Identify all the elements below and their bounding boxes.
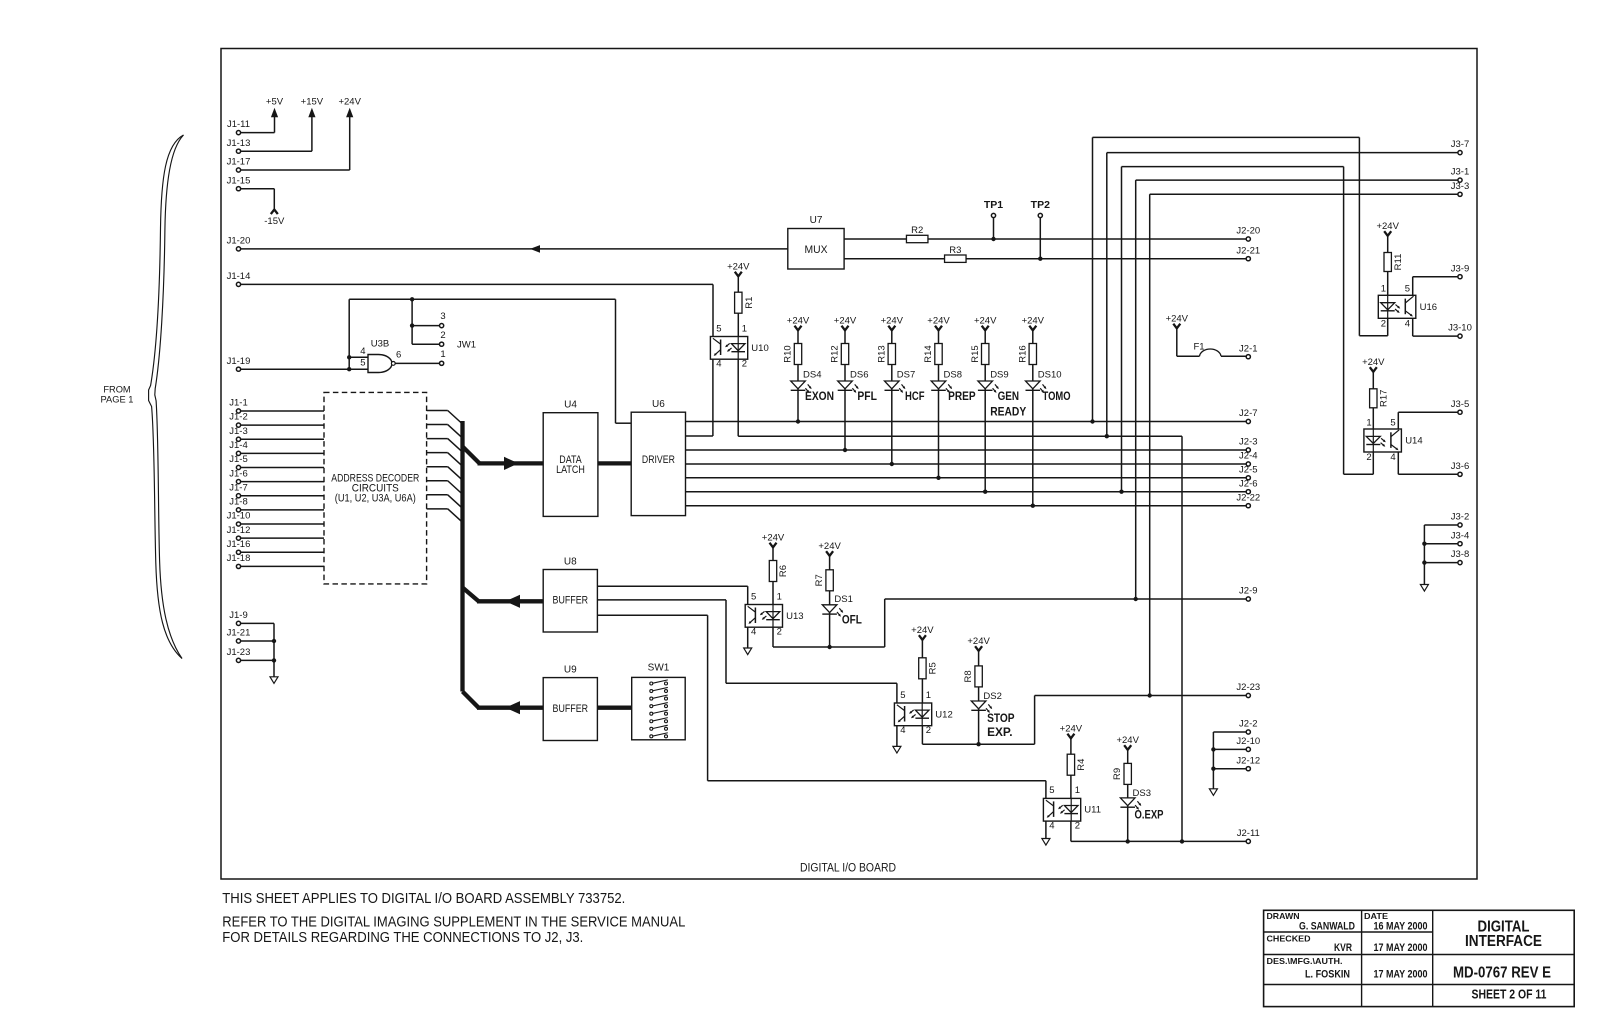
svg-text:R17: R17 — [1379, 390, 1390, 407]
svg-text:DS10: DS10 — [1038, 370, 1062, 381]
svg-text:J2-9: J2-9 — [1239, 586, 1257, 597]
svg-text:DRIVER: DRIVER — [642, 454, 675, 466]
svg-text:F1: F1 — [1194, 342, 1205, 353]
svg-text:+24V: +24V — [762, 533, 785, 544]
svg-text:J1-18: J1-18 — [227, 553, 251, 564]
svg-text:R14: R14 — [923, 345, 934, 362]
svg-text:EXP.: EXP. — [987, 727, 1013, 739]
svg-text:DS8: DS8 — [944, 370, 962, 381]
svg-text:J2-5: J2-5 — [1239, 464, 1257, 475]
svg-text:J3-10: J3-10 — [1448, 323, 1472, 334]
svg-text:R1: R1 — [744, 297, 755, 309]
svg-text:U16: U16 — [1420, 302, 1437, 313]
svg-text:DS7: DS7 — [897, 370, 915, 381]
svg-text:PREP: PREP — [948, 391, 976, 403]
svg-text:2: 2 — [1366, 452, 1371, 463]
svg-text:J1-1: J1-1 — [229, 398, 247, 409]
svg-text:J2-12: J2-12 — [1236, 755, 1260, 766]
svg-text:J1-6: J1-6 — [229, 468, 247, 479]
svg-text:3: 3 — [440, 311, 445, 322]
svg-text:1: 1 — [777, 591, 782, 602]
svg-text:1: 1 — [926, 690, 931, 701]
svg-text:BUFFER: BUFFER — [553, 703, 589, 715]
svg-text:J3-5: J3-5 — [1451, 399, 1469, 410]
svg-text:R3: R3 — [949, 245, 961, 256]
svg-text:J2-1: J2-1 — [1239, 343, 1257, 354]
svg-text:R13: R13 — [876, 345, 887, 362]
svg-text:R11: R11 — [1393, 254, 1404, 271]
svg-text:J2-11: J2-11 — [1237, 828, 1260, 839]
svg-text:+24V: +24V — [834, 316, 857, 327]
svg-text:4: 4 — [360, 346, 365, 357]
svg-text:(U1, U2, U3A, U6A): (U1, U2, U3A, U6A) — [335, 493, 416, 505]
svg-text:+24V: +24V — [787, 316, 810, 327]
svg-text:J3-8: J3-8 — [1451, 549, 1469, 560]
svg-text:U3B: U3B — [371, 339, 389, 350]
svg-text:SHEET 2 OF 11: SHEET 2 OF 11 — [1472, 988, 1547, 1002]
svg-text:4: 4 — [751, 626, 756, 637]
svg-text:DS9: DS9 — [990, 370, 1008, 381]
svg-text:DRAWN: DRAWN — [1267, 911, 1300, 921]
svg-text:J2-3: J2-3 — [1239, 437, 1257, 448]
svg-text:J2-2: J2-2 — [1239, 719, 1257, 730]
svg-text:FOR DETAILS REGARDING THE CONN: FOR DETAILS REGARDING THE CONNECTIONS TO… — [222, 930, 583, 946]
svg-text:J2-22: J2-22 — [1236, 492, 1260, 503]
svg-text:J2-6: J2-6 — [1239, 478, 1257, 489]
svg-text:STOP: STOP — [987, 713, 1015, 725]
svg-text:R2: R2 — [911, 225, 923, 236]
svg-text:J1-17: J1-17 — [227, 157, 251, 168]
svg-text:KVR: KVR — [1334, 942, 1352, 954]
svg-text:J1-5: J1-5 — [229, 454, 247, 465]
svg-text:+24V: +24V — [1362, 357, 1385, 368]
svg-text:J1-23: J1-23 — [227, 647, 251, 658]
svg-text:17 MAY 2000: 17 MAY 2000 — [1374, 969, 1428, 981]
svg-text:DS6: DS6 — [850, 370, 868, 381]
svg-text:5: 5 — [1405, 284, 1410, 295]
svg-text:U8: U8 — [564, 556, 577, 567]
svg-text:+24V: +24V — [1022, 316, 1045, 327]
svg-text:J1-16: J1-16 — [227, 539, 251, 550]
svg-text:R9: R9 — [1112, 768, 1123, 780]
svg-text:READY: READY — [990, 406, 1026, 418]
svg-text:4: 4 — [1405, 318, 1410, 329]
svg-text:J2-21: J2-21 — [1236, 245, 1260, 256]
svg-text:2: 2 — [777, 626, 782, 637]
svg-text:J2-10: J2-10 — [1236, 736, 1260, 747]
svg-text:+24V: +24V — [1376, 221, 1399, 232]
svg-text:1: 1 — [742, 323, 747, 334]
svg-text:R16: R16 — [1017, 345, 1028, 362]
svg-text:J1-21: J1-21 — [227, 628, 251, 639]
svg-text:J2-4: J2-4 — [1239, 451, 1257, 462]
svg-text:INTERFACE: INTERFACE — [1465, 933, 1542, 950]
svg-text:R7: R7 — [814, 574, 825, 586]
svg-text:2: 2 — [926, 725, 931, 736]
svg-text:U4: U4 — [564, 400, 577, 411]
svg-text:2: 2 — [1075, 820, 1080, 831]
svg-text:+24V: +24V — [1166, 314, 1189, 325]
svg-text:17 MAY 2000: 17 MAY 2000 — [1374, 942, 1428, 954]
svg-text:R12: R12 — [830, 345, 841, 362]
svg-text:R6: R6 — [778, 565, 789, 577]
svg-text:+24V: +24V — [967, 636, 990, 647]
svg-text:J3-9: J3-9 — [1451, 263, 1469, 274]
svg-text:1: 1 — [1366, 417, 1371, 428]
svg-text:+24V: +24V — [727, 262, 750, 273]
svg-text:4: 4 — [900, 725, 905, 736]
svg-text:+24V: +24V — [818, 541, 841, 552]
svg-text:J1-9: J1-9 — [229, 610, 247, 621]
svg-text:U13: U13 — [786, 611, 803, 622]
svg-text:U7: U7 — [810, 215, 823, 226]
svg-text:J1-14: J1-14 — [227, 271, 251, 282]
svg-text:6: 6 — [396, 349, 401, 360]
svg-text:16 MAY 2000: 16 MAY 2000 — [1374, 920, 1428, 932]
svg-text:L. FOSKIN: L. FOSKIN — [1305, 969, 1350, 981]
svg-text:J1-2: J1-2 — [229, 412, 247, 423]
svg-text:J2-7: J2-7 — [1239, 408, 1257, 419]
svg-text:FROM: FROM — [103, 385, 130, 395]
svg-text:DS1: DS1 — [834, 594, 852, 605]
svg-text:PFL: PFL — [857, 391, 877, 403]
svg-text:+24V: +24V — [1060, 724, 1083, 735]
svg-text:5: 5 — [716, 323, 721, 334]
svg-text:U6: U6 — [652, 399, 665, 410]
svg-text:G. SANWALD: G. SANWALD — [1299, 920, 1355, 932]
svg-text:+24V: +24V — [881, 316, 904, 327]
svg-text:+15V: +15V — [301, 97, 324, 108]
svg-text:1: 1 — [1381, 284, 1386, 295]
svg-text:J1-8: J1-8 — [229, 497, 247, 508]
svg-text:TP1: TP1 — [984, 199, 1003, 211]
svg-text:1: 1 — [1075, 785, 1080, 796]
svg-text:EXON: EXON — [805, 391, 834, 403]
svg-text:J1-12: J1-12 — [227, 525, 251, 536]
svg-text:J1-4: J1-4 — [229, 440, 247, 451]
svg-text:THIS SHEET APPLIES TO DIGITAL: THIS SHEET APPLIES TO DIGITAL I/O BOARD … — [222, 891, 625, 907]
svg-text:DS3: DS3 — [1133, 788, 1151, 799]
svg-text:R10: R10 — [783, 345, 794, 362]
svg-text:5: 5 — [360, 358, 365, 369]
svg-text:TOMO: TOMO — [1043, 391, 1071, 403]
svg-text:J3-2: J3-2 — [1451, 512, 1469, 523]
svg-text:DS4: DS4 — [803, 370, 821, 381]
svg-text:J2-20: J2-20 — [1236, 226, 1260, 237]
svg-text:J1-13: J1-13 — [227, 138, 251, 149]
svg-text:2: 2 — [440, 330, 445, 341]
svg-text:R15: R15 — [970, 345, 981, 362]
svg-text:O.EXP: O.EXP — [1135, 809, 1164, 821]
svg-text:J1-10: J1-10 — [227, 511, 251, 522]
svg-text:U12: U12 — [935, 709, 952, 720]
svg-text:4: 4 — [1049, 820, 1054, 831]
svg-text:J3-3: J3-3 — [1451, 181, 1469, 192]
svg-text:OFL: OFL — [842, 615, 862, 627]
svg-text:5: 5 — [751, 591, 756, 602]
svg-text:J1-15: J1-15 — [227, 175, 251, 186]
svg-text:2: 2 — [742, 358, 747, 369]
svg-text:DIGITAL I/O BOARD: DIGITAL I/O BOARD — [800, 863, 896, 875]
svg-text:J1-19: J1-19 — [227, 356, 251, 367]
svg-text:J2-23: J2-23 — [1236, 682, 1260, 693]
svg-text:BUFFER: BUFFER — [553, 595, 589, 607]
svg-text:U9: U9 — [564, 664, 577, 675]
svg-text:+24V: +24V — [927, 316, 950, 327]
svg-text:J3-6: J3-6 — [1451, 461, 1469, 472]
svg-text:+24V: +24V — [911, 625, 934, 636]
svg-text:4: 4 — [716, 358, 721, 369]
svg-text:J1-11: J1-11 — [227, 119, 250, 130]
svg-text:J3-4: J3-4 — [1451, 530, 1469, 541]
svg-text:PAGE 1: PAGE 1 — [101, 394, 134, 404]
svg-text:+24V: +24V — [974, 316, 997, 327]
svg-text:R5: R5 — [927, 662, 938, 674]
svg-text:-15V: -15V — [264, 216, 285, 227]
svg-text:R8: R8 — [963, 670, 974, 682]
svg-text:CHECKED: CHECKED — [1267, 934, 1311, 944]
svg-text:J3-7: J3-7 — [1451, 139, 1469, 150]
svg-text:DS2: DS2 — [983, 691, 1001, 702]
svg-text:TP2: TP2 — [1031, 199, 1050, 211]
svg-text:+24V: +24V — [1116, 735, 1139, 746]
svg-text:J1-3: J1-3 — [229, 426, 247, 437]
svg-text:JW1: JW1 — [457, 339, 476, 350]
svg-text:HCF: HCF — [905, 391, 925, 403]
svg-text:J1-7: J1-7 — [229, 482, 247, 493]
svg-text:DES.\MFG.\AUTH.: DES.\MFG.\AUTH. — [1267, 956, 1343, 966]
svg-text:MD-0767 REV E: MD-0767 REV E — [1453, 965, 1551, 982]
svg-text:U11: U11 — [1084, 805, 1101, 816]
svg-text:5: 5 — [1049, 785, 1054, 796]
svg-text:5: 5 — [1390, 417, 1395, 428]
svg-text:J3-1: J3-1 — [1451, 167, 1469, 178]
svg-text:2: 2 — [1381, 318, 1386, 329]
svg-text:R4: R4 — [1076, 759, 1087, 771]
svg-text:+24V: +24V — [338, 97, 361, 108]
svg-text:J1-20: J1-20 — [227, 236, 251, 247]
svg-text:1: 1 — [440, 349, 445, 360]
svg-text:4: 4 — [1390, 452, 1395, 463]
svg-text:5: 5 — [900, 690, 905, 701]
svg-text:REFER TO THE DIGITAL IMAGING S: REFER TO THE DIGITAL IMAGING SUPPLEMENT … — [222, 914, 685, 930]
svg-text:MUX: MUX — [805, 244, 828, 256]
svg-text:+5V: +5V — [266, 97, 284, 108]
svg-text:SW1: SW1 — [648, 663, 670, 674]
svg-text:U10: U10 — [751, 343, 768, 354]
svg-text:GEN: GEN — [998, 391, 1020, 403]
svg-text:LATCH: LATCH — [556, 464, 585, 476]
svg-text:U14: U14 — [1405, 436, 1422, 447]
